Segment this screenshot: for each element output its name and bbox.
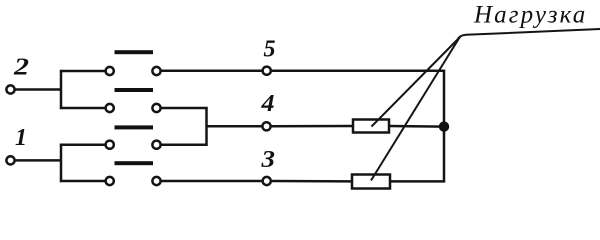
leader line to resistor R1 [372, 37, 461, 127]
svg-text:5: 5 [264, 37, 276, 63]
wire from terminal 2 [15, 88, 62, 91]
wire terminal 4 to resistor R1 [271, 125, 354, 128]
svg-text:4: 4 [260, 91, 274, 117]
switch contact A left [106, 67, 114, 75]
resistor R1 (load) [353, 120, 389, 133]
junction node [439, 121, 449, 131]
wire bracket vertical (contacts B and C join) [205, 107, 208, 146]
wire contact B right [161, 107, 208, 110]
wire terminal 3 to resistor R2 [271, 180, 353, 183]
terminal 2 [6, 85, 14, 93]
wire terminal 5 to right vertical [271, 69, 445, 72]
switch contact C right [152, 141, 160, 149]
leader line to resistor R2 [371, 38, 460, 181]
svg-text:1: 1 [15, 125, 27, 151]
wire bracket vertical (terminal 1 split) [60, 144, 63, 183]
wire contact D to terminal 3 [161, 180, 263, 183]
switch contact D right [152, 177, 160, 185]
switch bar C [115, 125, 154, 129]
resistor R2 (load) [352, 175, 390, 189]
svg-text:2: 2 [13, 55, 29, 81]
wire bracket vertical (terminal 2 split) [60, 70, 63, 109]
wire to contact C left [60, 143, 105, 146]
switch contact A right [152, 67, 160, 75]
wire contact C right [161, 143, 208, 146]
switch contact C left [106, 141, 114, 149]
wire resistor R2 to right vertical [389, 180, 445, 183]
terminal 3 [263, 177, 271, 185]
wire right vertical bus [443, 70, 446, 183]
wire to contact A left [60, 70, 105, 73]
wire from terminal 1 [15, 159, 62, 162]
switch bar D [115, 161, 154, 165]
switch bar A [115, 50, 154, 54]
wire to contact D left [60, 180, 105, 183]
wire resistor R1 to junction [388, 125, 444, 128]
wire contact A to terminal 5 [161, 70, 263, 73]
svg-text:Нагрузка: Нагрузка [473, 2, 587, 29]
switch contact B right [152, 104, 160, 112]
terminal 1 [6, 156, 14, 164]
terminal 4 [262, 122, 270, 130]
terminal 5 [263, 67, 271, 75]
wire to contact B left [60, 107, 105, 110]
switch contact B left [106, 104, 114, 112]
wire bracket to terminal 4 [207, 125, 263, 128]
switch contact D left [106, 177, 114, 185]
leader underline [458, 29, 600, 39]
svg-text:3: 3 [260, 147, 275, 173]
switch bar B [115, 88, 154, 92]
